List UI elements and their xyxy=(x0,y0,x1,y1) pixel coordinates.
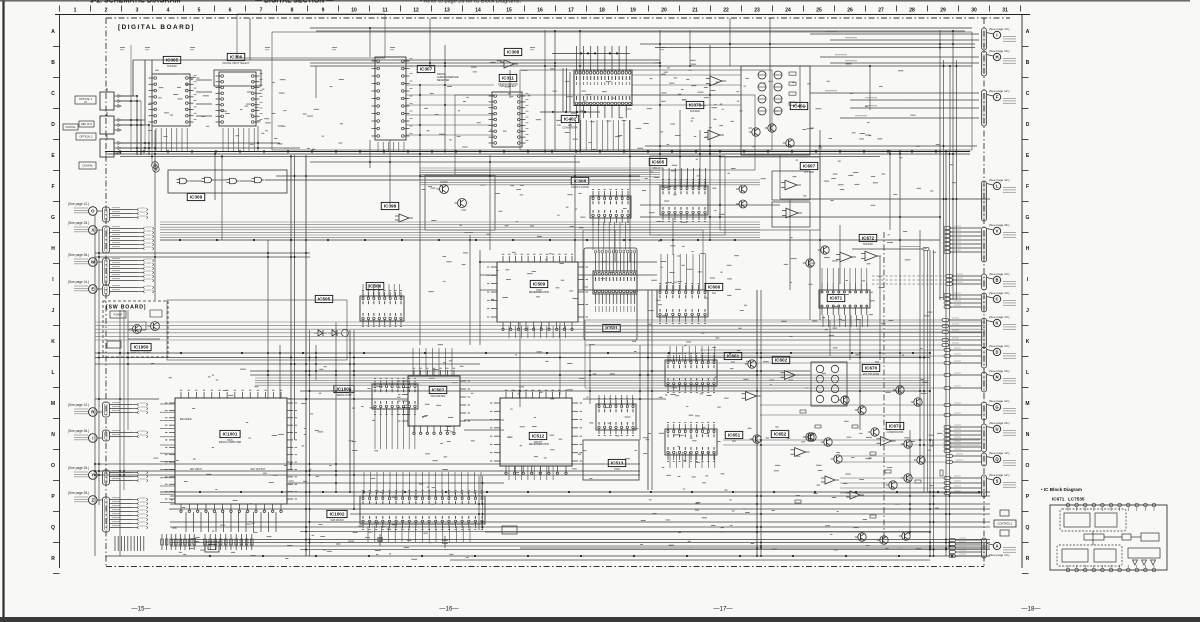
svg-text:IC1950: IC1950 xyxy=(134,345,149,350)
wire fan to B xyxy=(946,274,981,285)
transistor Q674 xyxy=(914,456,925,464)
ic IC309 label xyxy=(187,193,205,200)
svg-text:15: 15 xyxy=(506,8,512,14)
svg-text:Q: Q xyxy=(1026,525,1030,531)
ic IC309 gate box xyxy=(168,170,287,193)
ic IC506 xyxy=(360,291,404,327)
digital board boundary right xyxy=(983,18,985,567)
svg-text:H: H xyxy=(1026,246,1030,252)
wire bundle F2 xyxy=(420,180,760,185)
svg-text:BUFFER: BUFFER xyxy=(690,110,700,113)
svg-text:B: B xyxy=(1026,60,1030,66)
crystal X1001 xyxy=(205,542,219,552)
svg-text:I: I xyxy=(996,33,997,38)
svg-text:N: N xyxy=(1026,432,1030,438)
resistor R657 xyxy=(930,440,933,446)
svg-text:24: 24 xyxy=(785,8,791,14)
connector A xyxy=(981,538,1016,558)
svg-text:C: C xyxy=(1026,91,1030,97)
svg-text:(See page 13.): (See page 13.) xyxy=(989,27,1009,31)
svg-text:N: N xyxy=(995,375,998,380)
digital board boundary top xyxy=(106,17,1010,19)
wire bundle row F xyxy=(420,168,660,177)
SW board boundary xyxy=(103,301,168,357)
svg-text:E: E xyxy=(91,287,94,292)
wire fan to G xyxy=(944,403,981,416)
svg-text:DIGITAL FILTER: DIGITAL FILTER xyxy=(571,186,589,189)
svg-text:IC670: IC670 xyxy=(865,366,878,371)
svg-text:21: 21 xyxy=(692,8,698,14)
wire risers IC506 xyxy=(363,284,399,296)
wire fan to K xyxy=(942,318,981,346)
CONTROL 1 connector xyxy=(994,510,1016,536)
connector D xyxy=(981,344,1016,368)
svg-text:29: 29 xyxy=(940,8,946,14)
ic IC1006 xyxy=(372,379,418,415)
ic IC671 xyxy=(819,283,870,315)
wire fan to S xyxy=(944,476,981,494)
wire fan to A xyxy=(949,538,981,557)
svg-text:V: V xyxy=(996,229,999,234)
analog section divider dash-dot xyxy=(883,232,885,540)
connector G xyxy=(981,399,1016,420)
svg-text:L: L xyxy=(1026,370,1029,376)
connector N xyxy=(981,369,1016,392)
resistor array RA1003 xyxy=(204,534,253,550)
svg-text:IC509: IC509 xyxy=(533,282,546,287)
svg-text:(See page 13.): (See page 13.) xyxy=(989,49,1009,53)
op-amp IC378a xyxy=(706,76,726,86)
svg-text:L: L xyxy=(51,370,54,376)
ic IC1002 bottom wires xyxy=(368,526,470,542)
ic IC670 label xyxy=(862,364,880,376)
COAXIAL label xyxy=(63,124,78,130)
svg-text:PCM: PCM xyxy=(614,468,619,471)
svg-text:IC671: IC671 xyxy=(830,296,843,301)
connector jack J301 OPTICAL 1 label xyxy=(75,96,96,104)
svg-text:(See page 12.): (See page 12.) xyxy=(989,399,1009,403)
op-amp IC607a box xyxy=(772,171,810,200)
ic IC306 select box xyxy=(214,70,261,86)
transistor Q504 xyxy=(455,199,467,208)
transistor Q673 xyxy=(901,440,912,448)
transistor Q1950 xyxy=(130,325,142,334)
resistor R654 xyxy=(870,452,876,455)
connector C xyxy=(981,291,1016,312)
svg-text:(See page 12.): (See page 12.) xyxy=(989,473,1009,477)
ic IC509 xyxy=(487,254,588,330)
svg-text:D/A: D/A xyxy=(731,361,735,364)
op-amp IC674b xyxy=(846,491,864,499)
connector B xyxy=(981,272,1016,290)
svg-text:—16—: —16— xyxy=(439,606,459,613)
svg-text:(See page 14.): (See page 14.) xyxy=(68,280,89,284)
svg-text:IC606: IC606 xyxy=(708,285,721,290)
svg-text:F: F xyxy=(51,184,54,190)
connector I xyxy=(981,27,1016,50)
svg-text:IC506: IC506 xyxy=(369,284,382,289)
op-amp IC602 label xyxy=(772,356,790,363)
svg-text:IC306: IC306 xyxy=(230,55,243,60)
ic IC1001 xyxy=(165,390,297,512)
optical module 3 xyxy=(100,135,121,157)
resistor marks top-left xyxy=(120,48,665,50)
transistor Q659 xyxy=(868,428,879,436)
svg-text:—18—: —18— xyxy=(1021,606,1041,613)
svg-text:(See page 13.): (See page 13.) xyxy=(989,553,1009,557)
connector Z xyxy=(68,205,104,504)
dashed wires to connector B xyxy=(872,276,947,284)
svg-text:—15—: —15— xyxy=(131,606,151,613)
svg-text:(See page 12.): (See page 12.) xyxy=(68,202,89,206)
resistor array RA1002 xyxy=(161,534,196,550)
gate IC309d xyxy=(252,177,265,183)
ic IC501 label xyxy=(603,324,621,331)
svg-text:C: C xyxy=(51,91,55,97)
connector Y xyxy=(68,205,104,479)
svg-text:IC651: IC651 xyxy=(728,433,741,438)
transistor Q655 xyxy=(831,455,842,463)
svg-text:REC OUT: REC OUT xyxy=(81,123,92,126)
ic IC508 label xyxy=(571,177,589,189)
ic IC651 xyxy=(665,423,717,462)
transistor Q663 xyxy=(855,406,866,414)
connector jack REC OUT label xyxy=(79,121,94,127)
svg-text:LPF AMP: LPF AMP xyxy=(804,171,815,174)
ic IC402 label xyxy=(561,115,579,127)
svg-text:A: A xyxy=(1026,29,1030,35)
op-amp IC652a xyxy=(791,448,810,457)
wire risers IC606 xyxy=(661,254,706,290)
resistor R659 xyxy=(795,500,801,503)
op-amp IC308 xyxy=(500,60,518,68)
section outline boxes xyxy=(167,14,972,360)
ic IC402 block xyxy=(540,46,632,118)
ic IC1002 label xyxy=(327,510,347,522)
svg-text:OPTICAL 2: OPTICAL 2 xyxy=(79,135,93,139)
wire risers IC603 xyxy=(670,346,715,362)
capacitor C1002 xyxy=(444,536,446,548)
svg-text:11: 11 xyxy=(382,8,388,14)
op-amp IC674a xyxy=(821,476,839,484)
svg-text:W: W xyxy=(91,260,95,265)
svg-text:10: 10 xyxy=(351,8,357,14)
svg-text:M: M xyxy=(1025,401,1029,407)
connector CN311 pins xyxy=(103,497,148,532)
ic IC1950 label xyxy=(131,343,151,350)
op-amp IC673 xyxy=(877,437,896,446)
svg-text:IC671 LC7535: IC671 LC7535 xyxy=(1052,497,1085,502)
svg-text:F: F xyxy=(1026,184,1029,190)
optical module 1 xyxy=(100,88,121,110)
connector X xyxy=(68,205,104,234)
ic IC306 xyxy=(216,72,263,126)
svg-text:27: 27 xyxy=(878,8,884,14)
wire fan to C xyxy=(944,293,981,308)
svg-text:2: 2 xyxy=(105,8,108,14)
transistor Q402 xyxy=(765,124,776,132)
svg-text:8: 8 xyxy=(291,8,294,14)
transistor Q657 xyxy=(877,536,888,544)
ic IC505 label xyxy=(315,295,333,302)
wire bus verticals xyxy=(95,18,957,556)
ic IC501 box xyxy=(584,248,637,340)
ic IC501 ladder xyxy=(593,250,637,312)
wire gate chain xyxy=(190,180,202,182)
connector R xyxy=(68,205,104,416)
svg-text:IC605: IC605 xyxy=(652,160,665,165)
svg-text:PARAMETER: PARAMETER xyxy=(431,395,446,398)
svg-text:IC513: IC513 xyxy=(611,461,624,466)
svg-text:MCL OUT: MCL OUT xyxy=(653,167,664,170)
ic IC401 label xyxy=(790,102,808,109)
audio mute box xyxy=(425,175,495,230)
svg-text:X: X xyxy=(91,228,94,233)
svg-text:REVERBERATION: REVERBERATION xyxy=(529,291,550,294)
wire junction dots xyxy=(94,27,980,557)
connector F xyxy=(981,89,1016,126)
connector W xyxy=(68,205,104,266)
switch S1951 xyxy=(128,322,146,330)
wire fan to D xyxy=(944,348,981,364)
transistor Q660 xyxy=(886,481,897,489)
svg-text:18: 18 xyxy=(599,8,605,14)
svg-text:COAXIAL: COAXIAL xyxy=(65,126,76,129)
digital board boundary bottom xyxy=(106,566,984,568)
svg-text:IC602: IC602 xyxy=(775,358,788,363)
IC block diagram inset xyxy=(1041,487,1167,572)
op-amp IC308 label xyxy=(504,48,522,55)
svg-text:• IC Block Diagram: • IC Block Diagram xyxy=(1041,487,1082,492)
wire risers IC1002 xyxy=(364,472,481,494)
svg-text:Z: Z xyxy=(92,498,95,503)
op-amp IC672b xyxy=(861,251,881,261)
op-amp IC398 xyxy=(395,214,413,222)
capacitor C1001 xyxy=(379,534,381,546)
svg-text:Q: Q xyxy=(51,525,55,531)
wire fallers IC512 xyxy=(509,466,553,480)
ic IC661 xyxy=(665,354,717,393)
connector Q xyxy=(981,451,1016,466)
svg-text:• Refer to page 26 for IC Bloc: • Refer to page 26 for IC Block Diagrams… xyxy=(420,0,521,4)
svg-text:D/A: D/A xyxy=(712,292,716,295)
svg-text:DIGITAL INPUT SELECT: DIGITAL INPUT SELECT xyxy=(223,62,250,65)
ic IC671 label xyxy=(827,294,845,301)
svg-text:5: 5 xyxy=(198,8,201,14)
op-amp IC607 label xyxy=(800,162,818,174)
svg-text:IC1002: IC1002 xyxy=(330,512,345,517)
connector H xyxy=(981,49,1016,76)
ic IC1001 left pin wires xyxy=(160,404,175,502)
svg-text:4: 4 xyxy=(167,8,170,14)
wire fan to Q xyxy=(946,454,981,463)
connector CN304 pins xyxy=(103,226,154,253)
svg-text:IC505: IC505 xyxy=(318,297,331,302)
wire fallers IC402 xyxy=(570,120,629,152)
svg-text:MULTIPLEXER: MULTIPLEXER xyxy=(863,373,880,376)
svg-text:R: R xyxy=(51,556,55,562)
wire multiplexer test point xyxy=(852,247,929,251)
wire fallers IC306 xyxy=(223,128,254,152)
svg-text:O: O xyxy=(51,463,55,469)
wire fallers IC307 xyxy=(378,142,404,152)
connector O xyxy=(68,202,104,215)
svg-text:S: S xyxy=(996,479,999,484)
ic IC1001 bottom pin fan xyxy=(186,512,276,532)
connector jack OPTICAL 2 label xyxy=(76,133,96,140)
ic IC1006 label xyxy=(334,385,354,397)
transistor Q503 xyxy=(437,185,449,194)
svg-text:IC1001: IC1001 xyxy=(223,432,238,437)
resistor R652 xyxy=(815,425,821,428)
model note text xyxy=(128,338,160,340)
connector I-left xyxy=(68,205,104,442)
svg-text:IC652: IC652 xyxy=(774,432,787,437)
ic IC651 label xyxy=(725,431,743,443)
svg-text:19: 19 xyxy=(630,8,636,14)
ic IC513 box xyxy=(583,440,639,480)
svg-text:(See page 26.): (See page 26.) xyxy=(68,253,89,257)
svg-text:IC607: IC607 xyxy=(803,164,816,169)
transistor Q505 xyxy=(342,330,349,337)
svg-text:K: K xyxy=(1026,339,1030,345)
op-amp IC604 xyxy=(742,392,761,401)
op-amp IC673 label xyxy=(886,422,904,434)
svg-text:IC307: IC307 xyxy=(420,67,433,72)
transistor Q654 xyxy=(803,433,814,441)
svg-text:(See page 25.): (See page 25.) xyxy=(68,221,89,225)
svg-text:17: 17 xyxy=(568,8,574,14)
svg-text:25: 25 xyxy=(816,8,822,14)
POWER switch S1950 xyxy=(110,311,126,318)
connector CN305 pins xyxy=(103,258,154,285)
svg-text:IN: IN xyxy=(84,101,87,104)
svg-text:16: 16 xyxy=(537,8,543,14)
svg-text:1: 1 xyxy=(74,8,77,14)
svg-text:J: J xyxy=(1026,308,1029,314)
coax jack xyxy=(79,162,96,169)
ic IC307 xyxy=(372,57,413,140)
svg-text:SUB MICRO: SUB MICRO xyxy=(330,519,344,522)
svg-text:REVERBERATION: REVERBERATION xyxy=(529,443,550,446)
svg-text:POWER: POWER xyxy=(114,315,123,317)
wire risers IC671 xyxy=(822,268,867,283)
svg-text:(See page 25.): (See page 25.) xyxy=(68,466,89,470)
connector L xyxy=(981,178,1016,221)
connector V xyxy=(981,223,1016,262)
svg-text:B: B xyxy=(51,60,55,66)
wire fan to N xyxy=(944,373,981,389)
svg-text:6: 6 xyxy=(229,8,232,14)
resistor R653 xyxy=(852,425,858,428)
wire fallers IC671 xyxy=(823,315,868,327)
svg-text:(See page 13.): (See page 13.) xyxy=(989,315,1009,319)
ic IC513 label xyxy=(608,459,626,471)
wire fallers IC305 xyxy=(156,128,187,152)
wire bundle row G xyxy=(160,222,760,238)
svg-text:MICRO COMPUTER: MICRO COMPUTER xyxy=(219,441,242,444)
svg-text:IC507: IC507 xyxy=(432,388,445,393)
svg-text:(See page 12.): (See page 12.) xyxy=(68,403,89,407)
ic IC606 xyxy=(657,284,708,324)
svg-text:22: 22 xyxy=(723,8,729,14)
svg-text:J: J xyxy=(52,308,55,314)
svg-text:MUTE: MUTE xyxy=(440,184,447,187)
wire fan to U xyxy=(944,425,981,452)
reset IC1005 xyxy=(502,526,517,534)
svg-text:K: K xyxy=(51,339,55,345)
svg-text:COAXIAL: COAXIAL xyxy=(82,165,93,168)
resistor R651 xyxy=(800,410,806,413)
svg-text:L: L xyxy=(996,184,999,189)
svg-text:G: G xyxy=(995,405,998,410)
wire fan to V xyxy=(944,226,981,253)
wire runs to connectors I H F xyxy=(810,32,979,118)
connector S xyxy=(981,473,1016,497)
op-amp IC378 label xyxy=(686,101,704,113)
svg-text:BUFFER: BUFFER xyxy=(863,243,873,246)
svg-text:D: D xyxy=(1026,122,1030,128)
ic IC512 xyxy=(490,390,582,474)
svg-text:F: F xyxy=(996,95,999,100)
svg-text:(See page 12.): (See page 12.) xyxy=(989,451,1009,455)
ic IC661 label xyxy=(724,352,742,364)
wire fallers IC509 xyxy=(509,326,566,338)
svg-text:H: H xyxy=(51,246,55,252)
svg-text:O: O xyxy=(1026,463,1030,469)
svg-text:IC398: IC398 xyxy=(384,204,397,209)
svg-text:3: 3 xyxy=(136,8,139,14)
op-amp IC672 label xyxy=(859,234,877,246)
ic IC507 xyxy=(398,368,470,434)
ic IC605 label xyxy=(649,158,667,170)
digital board boundary left xyxy=(105,18,107,567)
svg-text:(See page 13.): (See page 13.) xyxy=(989,272,1009,276)
transistor Q653 xyxy=(821,438,832,446)
ic IC507 top wires xyxy=(413,348,452,376)
svg-text:R: R xyxy=(1026,556,1030,562)
wire IC305 to IC306 xyxy=(196,79,212,81)
svg-text:(See page 12.): (See page 12.) xyxy=(989,89,1009,93)
ic IC1006 down wires xyxy=(375,411,415,449)
connector CN308 pins xyxy=(103,402,148,417)
wire bus horizontals xyxy=(95,28,990,560)
wire fallers IC508 xyxy=(593,222,625,250)
wire runs to right connectors xyxy=(585,320,947,493)
connector E xyxy=(68,205,104,293)
transistor Q606 xyxy=(736,200,747,208)
pulse transformer T301 xyxy=(153,166,159,172)
wire fallers IC651 xyxy=(670,452,715,468)
svg-text:B: B xyxy=(995,278,998,283)
op-amp IC305 label xyxy=(163,56,181,68)
resistor R660 xyxy=(870,515,876,518)
svg-text:D/A: D/A xyxy=(732,440,736,443)
svg-text:D: D xyxy=(995,350,998,355)
ic IC605 xyxy=(660,180,708,222)
ic IC307 label xyxy=(417,65,435,72)
ic IC506 label xyxy=(366,282,384,289)
connector CN310 pins xyxy=(103,470,148,485)
wire bundle row L xyxy=(255,378,930,385)
svg-text:13: 13 xyxy=(444,8,450,14)
svg-text:CONTROL 1: CONTROL 1 xyxy=(998,522,1013,526)
transistor Q672 xyxy=(803,259,814,267)
transistor Q662 xyxy=(838,396,849,404)
svg-text:K: K xyxy=(995,321,998,326)
svg-text:IC501: IC501 xyxy=(605,326,618,331)
svg-text:20: 20 xyxy=(661,8,667,14)
